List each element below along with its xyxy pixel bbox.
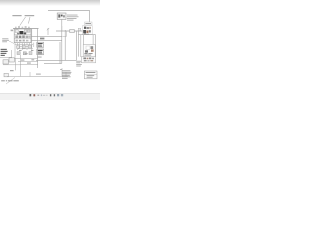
label left of block U1 [11,30,14,32]
notes block (dark left text) [1,49,8,56]
row 3 speckles [16,40,18,42]
main bus wire (left horizontal) [13,28,39,30]
row 1 cells [15,30,18,33]
relay row 2 boxes [17,52,32,55]
footer text (sheet reference) [1,80,19,81]
dark blob cells [19,31,23,34]
label above ground rail [36,74,41,75]
note text beside relay K1 [67,15,79,21]
terminal strip X1 [37,42,44,47]
divider [14,34,31,36]
callout wire to U1 [9,41,14,44]
wire from top area to connector J5 [48,11,90,22]
pin tick speckles above bus [15,26,30,27]
wire [11,50,13,60]
ground rail [7,76,68,78]
wire step down [62,31,66,36]
bottom connector cluster J7 [81,57,95,63]
switch S1 [4,73,8,76]
wire [19,55,21,76]
terminal strip X2 [37,49,44,55]
wire pair from U1 to vertical riser [31,36,62,40]
notes paragraph (bottom centre-right) [60,69,71,79]
wire label text [40,38,44,40]
long lower bus wires [36,60,76,63]
wire pair from bus down to J7 [76,31,78,60]
vertical wires centre [37,29,60,69]
callout text to J7 [76,61,82,67]
wire [0,56,12,58]
viewer toolbar [0,93,100,100]
module M1 [3,60,8,64]
wire [3,64,20,66]
inline component F1 on bus [70,29,74,32]
connector label J5 [85,22,92,25]
wire mesh under U1 [15,29,34,59]
relay K1 (top centre component box) [57,13,66,19]
wire callout arrows [20,17,30,26]
left note text [2,38,9,42]
wire [15,58,17,70]
fuse block U1 (left big component box) [14,29,31,43]
left-bottom subcircuit [0,50,20,84]
title block [84,71,97,79]
connector J6 block (right middle) [83,45,95,58]
wire stubs to ground rail [30,68,66,77]
lower bus wires [14,58,38,64]
relay row boxes [16,45,31,48]
stub box left of cluster [78,28,81,31]
wire rails down right side [81,35,96,57]
label under X2 [37,56,41,59]
connector J5 pin cluster (right top block) [82,26,92,35]
wire below J5 cluster [79,34,96,36]
module M2 [9,58,14,62]
callout diagonal [6,78,15,85]
wire stub from relay K1 down to bus [61,19,63,31]
divider [14,38,31,40]
bus wire (right horizontal) [56,30,82,32]
label text [10,70,14,71]
vertical riser wires [62,26,65,63]
speckle labels in mesh [19,50,34,64]
potentiometer R1 [47,28,49,35]
row 2 cells [15,35,18,38]
node label MAIN HARNESS (top annotation text) [12,15,34,16]
